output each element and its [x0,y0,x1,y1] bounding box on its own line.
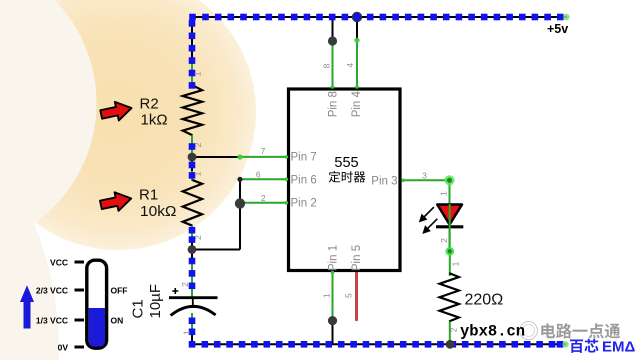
green pin tip pin6 at IC [285,178,289,182]
background offwhite blob upper-left [0,0,97,251]
svg-text:10µF: 10µF [147,284,164,319]
svg-text:2: 2 [193,142,203,147]
wire pin 8 branch from +5v rail [332,17,334,41]
wire pin 2 terminal lead [240,202,288,204]
svg-text:1kΩ: 1kΩ [141,112,168,129]
wire pin 1 terminal lead [332,272,334,321]
blue up arrow [20,285,34,328]
wire +5v top rail [192,16,567,18]
selection squares on +5v and ground nets [189,14,564,348]
voltage level indicator blue fill [89,308,105,347]
resistor R3 220ohm [440,273,459,321]
svg-text:6: 6 [256,170,261,180]
svg-text:+5v: +5v [547,22,568,36]
svg-text:Pin 4: Pin 4 [351,90,363,117]
svg-text:1: 1 [182,330,192,335]
wire pin 7 terminal lead [240,156,288,158]
background peach blob [0,0,256,250]
junction node pin8 wire end [328,36,337,45]
wire left drop from +5v rail to R2 [191,16,193,64]
junction node 220 resistor ground [446,340,455,349]
svg-text:Pin 5: Pin 5 [351,245,363,271]
wire ground bottom rail [192,343,566,345]
svg-text:5: 5 [344,293,354,298]
resistor R1 [183,180,202,226]
green endpoint pin7 [237,154,242,159]
green endpoint pin4 [354,38,359,43]
green pin tip pin8 at IC [331,85,335,89]
svg-text:2: 2 [193,235,203,240]
green endpoint pin3 corner [445,175,455,185]
capacitor C1 plus sign [172,288,178,294]
svg-text:OFF: OFF [111,286,128,296]
junction node pin6 tie small [237,177,242,182]
svg-text:ybx8.cn: ybx8.cn [460,323,525,341]
wire pin 4 branch from +5v rail [356,17,358,40]
tick 2/3 VCC [75,289,85,292]
wire R2 terminal 2 lead [191,135,193,157]
junction node R1/C1/tie [188,245,197,254]
svg-text:EMΔ: EMΔ [602,339,636,356]
svg-text:8: 8 [321,63,331,68]
svg-text:Pin 8: Pin 8 [327,91,339,117]
wire pin 3 horizontal lead [402,179,450,181]
watermark stamp circle [520,322,538,340]
svg-text:3: 3 [422,171,427,181]
wire pin 4 terminal lead [356,40,358,88]
junction node pin4 on +5v rail selected [352,12,361,21]
wire tie to left junction [192,249,240,251]
svg-text:1: 1 [321,293,331,298]
svg-text:R1: R1 [139,187,158,204]
wire C1 to bottom rail corner [191,330,193,344]
IC U1 label timer chinese glyphs [329,171,366,183]
capacitor C1 internal wire [192,298,194,308]
red arrow pointing at R1 [99,189,133,214]
junction node pin1 wire end [328,316,337,325]
LED light arrow 2 [423,219,437,233]
svg-text:Pin 3: Pin 3 [371,175,397,187]
wire pin6/pin2 vertical tie [239,179,241,249]
resistor R2 [183,85,202,135]
svg-text:Pin 2: Pin 2 [291,198,317,210]
svg-text:1: 1 [451,261,461,266]
capacitor C1 top plate [169,296,218,299]
IC U1 555 body [289,89,401,271]
svg-text:4: 4 [345,63,355,68]
wire junction to R1 [191,157,193,171]
tick 1/3 VCC [75,319,85,322]
junction node R2/R1/pin7 [188,153,197,162]
green endpoint led cathode [445,247,454,256]
svg-text:ON: ON [111,316,124,326]
wire R1 terminal 1 lead [191,171,193,181]
wire C1 terminal 1 lead [191,313,193,330]
green pin tip pin1 at IC [331,271,335,275]
LED D1 body [437,205,462,225]
green endpoint ground rail end [562,341,568,347]
capacitor C1 bottom plate arc [171,306,216,315]
junction node pin2 tie [235,198,245,208]
svg-text:1: 1 [193,171,203,176]
svg-text:1: 1 [193,71,203,76]
tick 0V [75,346,85,349]
wire C1 terminal 2 lead [191,262,193,298]
svg-text:1: 1 [439,191,449,196]
svg-text:Pin 6: Pin 6 [291,174,317,186]
green pin tip pin3 at IC [401,179,405,183]
wire junction to pin7 black segment [192,156,240,158]
tick VCC [75,261,85,264]
svg-text:Pin 7: Pin 7 [291,152,317,164]
svg-text:7: 7 [261,146,266,156]
watermark brand blue chinese glyphs [570,339,599,353]
wire pin 3 down to LED [449,180,451,251]
svg-text:C1: C1 [130,299,147,318]
svg-text:1/3 VCC: 1/3 VCC [36,316,68,326]
wire pin 5 stub unconnected [355,272,358,320]
wire pin 8 terminal lead [332,41,334,88]
wire pin 1 to bottom rail [332,321,334,345]
svg-text:2: 2 [439,238,449,243]
svg-text:10kΩ: 10kΩ [140,203,177,220]
svg-text:R2: R2 [140,96,159,113]
LED light arrow 1 [420,207,434,221]
svg-text:2: 2 [261,193,266,203]
red arrow pointing at R2 [99,99,133,124]
LED D1 cathode bar [436,225,463,228]
wire junction to C1 lead [191,250,193,263]
svg-text:555: 555 [334,155,358,171]
svg-text:220Ω: 220Ω [465,292,504,309]
wire pin3 overlay across LED [449,204,451,251]
green pin tip pin7 at IC [285,155,289,159]
green pin tip pin4 at IC [355,85,359,89]
svg-text:0V: 0V [58,343,69,353]
background offwhite blob lower-left [0,10,59,360]
svg-text:2: 2 [449,327,459,332]
wire pin 6 terminal lead [240,178,288,180]
green endpoint +5v rail end [563,14,569,20]
svg-text:2: 2 [180,282,190,287]
green pin tip pin2 at IC [285,201,289,205]
wire LED cathode to 220 resistor [449,251,451,276]
wire R1 terminal 2 lead [191,226,193,241]
wire 220 resistor to bottom rail [449,321,451,344]
voltage level indicator tube [87,260,107,348]
watermark chinese gray glyphs [541,323,620,338]
wire R2 terminal 1 lead [191,64,193,86]
wire R1 bottom to junction [191,241,193,250]
svg-text:Pin 1: Pin 1 [327,245,339,271]
svg-text:VCC: VCC [50,258,68,268]
svg-text:2/3 VCC: 2/3 VCC [36,286,68,296]
